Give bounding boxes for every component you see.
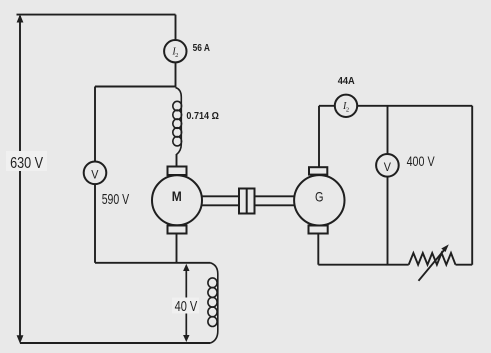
wire voltmeter1 top lead [94,87,96,163]
ammeter A2 (I2) [335,95,357,117]
generator G (DC machine with brushes) [294,167,344,233]
svg-text:590 V: 590 V [102,191,130,208]
value label 40 V [172,298,199,314]
wire voltmeter2 bottom lead [387,177,389,265]
wire generator top lead [318,106,320,168]
value label 630 V [6,151,47,171]
wire bottom horizontal [20,342,210,344]
ammeter A1 (I2) [164,40,186,62]
voltmeter V1 [84,162,107,185]
svg-text:56 A: 56 A [193,43,210,54]
shaft coupling [239,189,255,214]
svg-text:M: M [172,188,182,204]
svg-text:630 V: 630 V [10,155,43,172]
wire branch horizontal to voltmeter1 [95,86,176,88]
svg-text:G: G [315,189,324,205]
svg-text:400 V: 400 V [407,154,435,169]
40V measurement arrow line [185,268,187,338]
wire coil1 to motor brush [176,154,178,167]
svg-text:0.714 Ω: 0.714 Ω [186,110,219,122]
svg-text:44A: 44A [338,76,355,87]
rheostat R1 (variable load resistor) [409,248,456,281]
inductor L1 (motor field winding, 0.714 ohm) [173,88,182,155]
wire bottom-left horizontal [95,262,210,264]
wire voltmeter1 bottom lead [94,185,96,263]
inductor L2 (40 V winding) [208,263,218,343]
wire top horizontal [17,14,176,16]
wire rheostat to right corner [456,264,473,266]
shaft (M to G mechanical link) [202,196,294,205]
wire / 630V measurement line, left vertical [19,16,21,342]
svg-text:2: 2 [175,52,178,59]
wire voltmeter2 top lead [387,106,389,154]
svg-text:40 V: 40 V [175,298,198,315]
wire motor bottom lead [176,234,178,263]
wire ammeter1 top lead [175,15,177,40]
wire generator bottom lead [317,234,319,265]
wire ammeter1 bottom lead [175,62,177,87]
svg-text:V: V [384,160,391,174]
rheostat R1 arrow head [441,244,449,252]
wire bottom-right horizontal [318,264,408,266]
630V measurement arrow heads [17,14,24,22]
motor M (DC machine with brushes) [152,167,202,234]
voltmeter V2 [376,154,399,177]
wire top-right horizontal [319,105,472,107]
svg-text:2: 2 [346,107,349,114]
svg-text:V: V [91,168,98,182]
wire right vertical [471,106,473,265]
